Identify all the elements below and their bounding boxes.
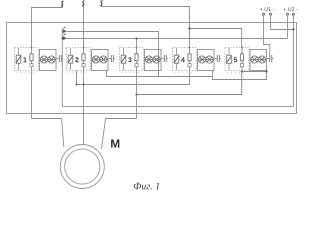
semiconductor module box 1: [40, 50, 57, 71]
block number 1: [23, 57, 26, 62]
junction block 3 input: [136, 47, 138, 49]
control arrow 2: [63, 34, 67, 41]
block number 2: [75, 57, 78, 62]
label +U2-: [283, 7, 297, 11]
resistor R4: [188, 54, 191, 61]
chain bus A below modules: [107, 71, 213, 77]
switch S5: [227, 48, 232, 70]
wire phase A lead-in: [32, 8, 63, 48]
sensor box below R2: [82, 64, 85, 67]
wire through block 1: [31, 48, 33, 71]
wire phase C lead-in: [102, 7, 190, 48]
wire U1 plus to block 5 capacitor: [264, 15, 270, 55]
motor lead right: [102, 119, 137, 149]
module internal wire 5: [250, 59, 267, 61]
motor M inner circle: [65, 149, 100, 184]
motor lead left: [32, 119, 64, 148]
caption Fig 1: [134, 183, 159, 190]
wire block1 output to motor bar: [31, 71, 33, 119]
module internal wire 4: [198, 59, 215, 61]
capacitor C4: [214, 55, 221, 62]
common return line: [62, 106, 293, 108]
control node vertical block 1: [61, 28, 63, 107]
capacitor C5: [267, 55, 274, 62]
switch S2: [68, 48, 73, 70]
terminal U2 plus: [287, 13, 289, 15]
capacitor C2: [108, 55, 115, 62]
gate bus upper: [67, 32, 159, 77]
junction control node: [61, 37, 63, 39]
semiconductor module box 4: [198, 50, 215, 71]
opto-thyristor VS5.2: [258, 56, 265, 63]
sensor box below R4: [188, 64, 191, 67]
terminal phase A: [61, 1, 63, 7]
junction gate bus block3 tap: [136, 38, 138, 40]
terminal U1 minus: [270, 13, 272, 15]
thyristor cell block 3 (dashed box): [120, 48, 144, 74]
module internal wire 3: [145, 59, 162, 61]
link line below block5: [242, 71, 267, 73]
block number 5: [234, 57, 237, 62]
junction block 1 input: [31, 47, 33, 49]
terminal U1 plus: [263, 13, 265, 15]
wire block5 to return line: [137, 72, 242, 95]
junction block5 left dot: [241, 70, 243, 72]
capacitor C1: [56, 55, 63, 62]
opto-thyristor VS1.1: [40, 56, 47, 63]
label +U1-: [260, 7, 274, 11]
opto-thyristor VS1.2: [48, 56, 55, 63]
sensor box below R3: [135, 64, 138, 67]
opto-thyristor VS3.2: [153, 56, 160, 63]
sensor box below R5: [240, 64, 243, 67]
wire phase C branch to block 5: [190, 29, 242, 48]
wire block2 lower tap to block4: [77, 71, 190, 85]
converter enclosure box: [7, 23, 297, 114]
thyristor cell block 4 (dashed box): [173, 48, 197, 74]
junction block 2 input: [83, 47, 85, 49]
junction block 5 input: [241, 47, 243, 49]
junction phase C branch: [188, 27, 190, 29]
control arrow 1: [63, 27, 67, 34]
terminal phase C: [100, 1, 102, 7]
junction rail top: [292, 28, 294, 30]
wire U1 minus to common rail: [271, 15, 294, 29]
junction block2 tap dot: [76, 84, 78, 86]
terminal U2 minus: [292, 13, 294, 15]
junction phase B crossing dot: [83, 84, 85, 86]
opto-thyristor VS2.2: [100, 56, 107, 63]
switch S1: [16, 48, 21, 70]
junction block5 right dot: [265, 70, 267, 72]
switch S4: [174, 48, 179, 70]
switch S3: [121, 48, 126, 70]
semiconductor module box 5: [250, 50, 267, 71]
label M: [111, 139, 119, 147]
gate bus lower: [67, 38, 288, 40]
semiconductor module box 2: [92, 50, 109, 71]
module internal wire 1: [40, 59, 57, 61]
block number 4: [181, 57, 185, 62]
resistor R2: [82, 54, 85, 61]
thyristor cell block 5 (dashed box): [225, 48, 249, 74]
junction block 4 input: [189, 47, 191, 49]
riser block4 module: [213, 71, 267, 80]
wire U2 plus to gate bus: [287, 15, 289, 38]
opto-thyristor VS4.2: [206, 56, 213, 63]
wire block3 output down: [136, 71, 138, 119]
module internal wire 2: [92, 59, 109, 61]
resistor R5: [240, 54, 243, 61]
resistor R3: [135, 54, 138, 61]
terminal phase B: [82, 1, 84, 7]
opto-thyristor VS5.1: [251, 56, 258, 63]
common rail vertical right side: [293, 15, 295, 106]
junction return on block3 wire: [135, 93, 137, 95]
opto-thyristor VS4.1: [198, 56, 205, 63]
wire through block 2: [83, 48, 85, 71]
opto-thyristor VS3.1: [145, 56, 152, 63]
semiconductor module box 3: [145, 50, 162, 71]
wire phase B to motor: [83, 7, 85, 145]
wire block3 feed from gate bus: [136, 39, 138, 48]
thyristor cell block 2 (dashed box): [67, 48, 91, 74]
block number 3: [128, 57, 131, 62]
wire through block 3: [136, 48, 138, 71]
resistor R1: [30, 54, 33, 61]
wire through block 5: [241, 48, 243, 71]
sensor box below R1: [30, 64, 33, 67]
capacitor C3: [161, 55, 168, 62]
thyristor cell block 1 (dashed box): [15, 48, 39, 74]
wire through block 4: [189, 48, 191, 71]
motor M outer circle: [60, 145, 104, 189]
opto-thyristor VS2.1: [92, 56, 99, 63]
